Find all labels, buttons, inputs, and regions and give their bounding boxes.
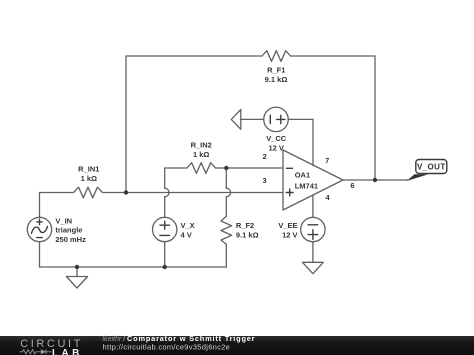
wire R_IN2 net left: [165, 167, 187, 169]
wire V_X bottom lead: [164, 242, 166, 267]
wire R_F2 branch upper: [225, 168, 227, 188]
svg-text:250 mHz: 250 mHz: [55, 235, 86, 244]
svg-text:V_X: V_X: [181, 221, 195, 230]
wire feedback left vertical: [125, 56, 127, 193]
svg-text:R_IN2: R_IN2: [191, 140, 212, 149]
svg-text:12 V: 12 V: [268, 143, 283, 152]
resistor R_F2: [221, 216, 232, 244]
V_EE minus symbol: [308, 224, 318, 226]
svg-text:2: 2: [263, 152, 267, 161]
svg-text:7: 7: [325, 156, 329, 165]
svg-text:4 V: 4 V: [181, 230, 192, 239]
junction ground rail at GND1: [75, 265, 79, 269]
wire bottom rail: [40, 266, 227, 268]
V_CC plus symbol: [277, 115, 285, 123]
ground GND2 triangle: [303, 262, 324, 273]
svg-text:R_F1: R_F1: [267, 65, 285, 74]
wire feedback right vertical: [374, 56, 376, 180]
op-amp U1 triangle: [283, 150, 343, 210]
svg-text:6: 6: [350, 181, 354, 190]
voltage source V_CC circle: [264, 107, 289, 131]
svg-text:R_IN1: R_IN1: [78, 165, 99, 174]
wire op-amp pin 7 vertical: [312, 119, 314, 165]
wire V_CC left lead: [241, 118, 264, 120]
wire V_X branch to source: [164, 197, 166, 218]
V_X minus symbol: [160, 234, 170, 236]
junction pin-2 node: [224, 166, 228, 170]
wire R_IN2 net right to op-amp pin 2: [215, 167, 283, 169]
svg-text:V_EE: V_EE: [278, 221, 297, 230]
junction node A: [124, 190, 128, 194]
op-amp minus input symbol: [287, 167, 293, 169]
op-amp plus input symbol: [286, 189, 293, 196]
wire top left horizontal: [126, 55, 262, 57]
wire op-amp pin 4 vertical: [312, 195, 314, 217]
junction ground rail at V_X: [163, 265, 167, 269]
wire R_F2 branch middle: [225, 197, 227, 216]
node flag V_OUT tail: [407, 174, 429, 181]
svg-text:LAB: LAB: [52, 348, 83, 355]
wire V_IN top lead: [39, 193, 41, 218]
ground GND1 triangle: [66, 277, 87, 289]
svg-text:9.1 kΩ: 9.1 kΩ: [265, 75, 288, 84]
svg-text:triangle: triangle: [55, 226, 82, 235]
svg-text:http://circuitlab.com/ce9v35dj: http://circuitlab.com/ce9v35dj6nc2e: [103, 343, 231, 352]
wire top right horizontal: [291, 55, 376, 57]
junction output node: [373, 178, 377, 182]
svg-text:12 V: 12 V: [282, 230, 297, 239]
voltage source V_X circle: [153, 217, 177, 241]
svg-text:R_F2: R_F2: [236, 221, 254, 230]
svg-text:V_CC: V_CC: [266, 134, 287, 143]
voltage source V_EE circle: [301, 217, 325, 241]
wire main horizontal to op-amp pin 3: [103, 192, 284, 194]
wire V_X branch upper: [164, 168, 166, 188]
voltage source V_IN circle: [27, 217, 51, 241]
wire R_F2 bottom lead: [225, 244, 227, 267]
svg-text:OA1: OA1: [295, 170, 310, 179]
V_IN minus symbol: [37, 237, 43, 239]
footer logo resistor zigzag: [20, 350, 41, 354]
V_EE plus symbol: [308, 230, 318, 240]
wire V_EE bottom lead: [312, 242, 314, 263]
ground flag at V_CC (rotated): [231, 110, 241, 130]
wire main horizontal left segment: [40, 192, 74, 194]
resistor R_IN2: [187, 163, 216, 174]
svg-text:3: 3: [263, 176, 267, 185]
svg-text:9.1 kΩ: 9.1 kΩ: [236, 230, 259, 239]
svg-text:1 kΩ: 1 kΩ: [81, 174, 97, 183]
V_IN plus symbol: [37, 219, 43, 225]
ground GND1 stem: [76, 267, 78, 277]
svg-text:1 kΩ: 1 kΩ: [193, 150, 209, 159]
svg-text:V_IN: V_IN: [55, 217, 72, 226]
wire output: [343, 179, 408, 181]
V_CC minus symbol (bar): [269, 115, 271, 123]
V_X plus symbol: [160, 221, 170, 229]
footer logo diode: [41, 349, 46, 354]
wire hop over main wire at V_X branch: [165, 188, 169, 197]
V_IN sine symbol: [32, 226, 48, 233]
resistor R_IN1: [74, 187, 103, 198]
node flag V_OUT box: [416, 160, 447, 174]
wire hop over main wire at R_F2 branch: [226, 188, 230, 197]
resistor R_F1: [262, 51, 291, 62]
svg-text:LM741: LM741: [295, 181, 318, 190]
svg-text:V_OUT: V_OUT: [417, 162, 446, 171]
wire V_IN bottom lead: [39, 242, 41, 267]
wire V_CC to pin 7 corner: [288, 118, 313, 120]
